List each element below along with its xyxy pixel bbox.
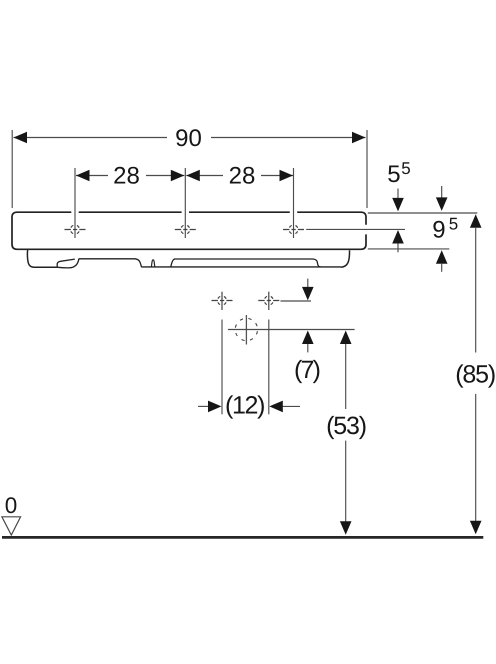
washbasin apron left descender [27,250,57,267]
svg-text:(12): (12) [225,391,266,419]
5^5 lower stem [397,244,399,253]
extension line below right tap hole [268,320,270,415]
tap hole cross 3 on basin [283,225,304,234]
9^5 lower stem [441,264,443,272]
arrowhead left of second 28 [186,170,200,182]
floor line [2,536,483,539]
tap hole cross right (lower view) [258,292,279,310]
svg-text:(53): (53) [326,412,367,440]
reference line tap hole level (right) [306,228,405,230]
apron bottom line [141,266,341,268]
(7) stem [307,344,309,352]
apron upper line left section [79,259,142,267]
svg-text:5: 5 [387,161,400,188]
reference line basin bottom (right) [368,248,450,250]
apron rise at recess left [171,259,175,267]
svg-text:5: 5 [401,159,410,178]
extension line right of 90 dim [366,130,368,208]
apron right foot [341,250,350,267]
dimension line 28 first [76,175,108,177]
extension line below left tap hole [221,320,223,415]
5^5 upper stem [397,189,399,200]
drain hole dashed circle [235,315,257,345]
tap hole cross 1 on basin [65,225,86,234]
svg-text:(85): (85) [455,361,496,389]
(85) top up arrowhead [470,214,482,228]
(53) top up arrowhead [340,331,352,345]
down arrow to tap hole line [307,279,309,290]
tap hole reference short line (middle) [281,300,312,302]
(85) upper stem [475,228,477,353]
arrowhead right of second 28 [280,170,294,182]
reference line top edge (right) [368,212,478,214]
tap hole cross 2 on basin [175,225,196,234]
washbasin body outline [12,212,366,249]
drain level reference line [228,329,355,331]
apron left flap [57,259,79,268]
svg-text:28: 28 [229,162,256,189]
9^5 down arrowhead [436,197,448,211]
(85) bottom down arrowhead [470,521,482,535]
extension line left of first 28 [74,168,76,238]
dimension line 90 [14,137,168,139]
arrowhead left of first 28 [76,170,90,182]
dimension line 28 second [186,175,223,177]
tap hole cross left (lower view) [212,292,233,310]
dimension (12) right tail and arrowhead [282,405,300,407]
svg-text:28: 28 [113,162,140,189]
(85) lower stem [475,394,477,521]
(53) upper stem [345,344,347,409]
datum triangle [2,517,21,535]
arrowhead left of 90 [14,132,28,144]
extension line right of second 28 [293,168,295,238]
apron upper line right section [174,259,321,267]
dimension (12) left tail and arrowhead [198,405,209,407]
(53) lower stem [345,441,347,522]
arrowhead right of 90 [352,132,366,144]
apron middle spike [151,260,154,267]
9^5 upper stem [441,186,443,199]
svg-text:5: 5 [449,215,458,234]
svg-text:90: 90 [175,125,202,152]
extension line left of 90 dim [11,130,13,208]
svg-text:(7): (7) [294,356,321,384]
(53) bottom down arrowhead [340,521,352,535]
arrowhead right of first 28 [171,170,185,182]
(7) up arrowhead at drain line [302,331,314,345]
5^5 up arrowhead [392,230,404,244]
5^5 down arrowhead [392,198,404,212]
svg-text:9: 9 [432,216,445,243]
9^5 up arrowhead [436,250,448,263]
extension line middle of 28 dims [184,168,186,238]
svg-text:0: 0 [5,493,18,518]
